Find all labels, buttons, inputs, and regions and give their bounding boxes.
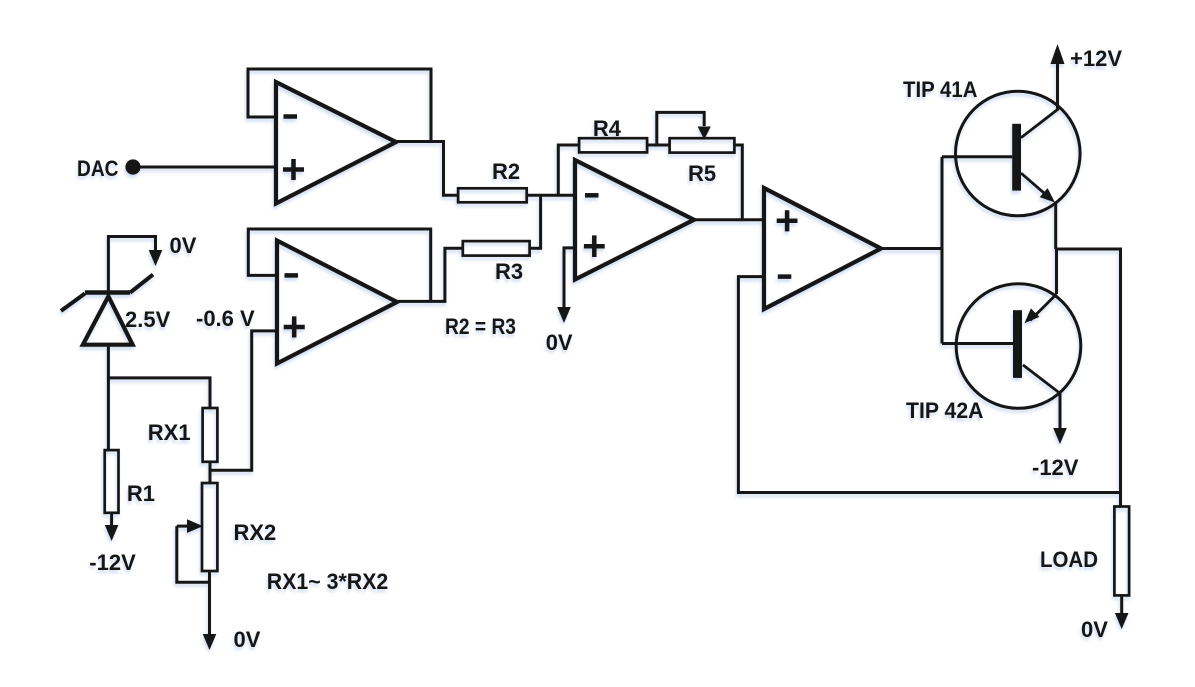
zener bar left tail — [61, 294, 85, 311]
wire U3 output to U4 + input — [692, 218, 764, 221]
wire Q1 emitter to output node — [1054, 202, 1057, 249]
arrow -12V (Q2) — [1053, 428, 1067, 444]
wire output node to load branch — [1056, 249, 1121, 493]
svg-text:R4: R4 — [593, 116, 622, 141]
arrow 0V (U3) — [557, 307, 571, 323]
resistor R3 — [463, 241, 530, 284]
transistor Q2 TIP 42A — [942, 284, 1081, 409]
wire junction R2/R3 node — [530, 195, 541, 248]
svg-text:0V: 0V — [546, 330, 573, 355]
zener diode D1 triangle — [83, 296, 133, 344]
wire U1 output to R2 — [394, 142, 459, 196]
svg-text:-12V: -12V — [89, 550, 136, 575]
zener bar right tail — [130, 275, 153, 293]
wire RX2 wiper to bottom — [177, 526, 210, 582]
svg-text:0V: 0V — [234, 627, 261, 652]
arrow 0V (LOAD) — [1115, 613, 1129, 629]
resistor LOAD — [1040, 507, 1129, 596]
resistor R2 — [458, 159, 527, 202]
svg-text:TIP 41A: TIP 41A — [903, 77, 978, 102]
svg-text:LOAD: LOAD — [1040, 547, 1098, 572]
arrow +12V — [1051, 44, 1065, 64]
wire U4 output to bases — [879, 247, 942, 250]
svg-text:TIP 42A: TIP 42A — [906, 398, 984, 423]
potentiometer RX2 — [202, 483, 276, 571]
svg-text:RX2: RX2 — [234, 520, 277, 545]
wire node to RX1 — [108, 378, 210, 408]
op-amp U3 — [575, 160, 694, 280]
svg-text:RX1: RX1 — [148, 420, 191, 445]
wire to LOAD — [1119, 493, 1122, 507]
zener 0V arrow — [149, 250, 163, 266]
resistor RX1 — [148, 408, 218, 462]
wire U2 + input from RX1/RX2 node — [210, 331, 278, 470]
resistor R1 — [105, 450, 155, 513]
arrow 0V (RX2) — [203, 634, 217, 650]
arrow -12V (R1) — [105, 525, 119, 541]
op-amp U1 — [276, 82, 396, 204]
svg-text:-0.6 V: -0.6 V — [196, 306, 255, 331]
wire U2 feedback loop — [248, 229, 430, 301]
svg-text:R1: R1 — [127, 481, 155, 506]
svg-text:R5: R5 — [688, 161, 716, 186]
zener diode D1 top wire to 0V — [108, 237, 155, 293]
R5 wiper wire — [657, 112, 704, 145]
svg-text:0V: 0V — [170, 233, 197, 258]
svg-text:R2 = R3: R2 = R3 — [445, 314, 516, 339]
wire U3 + input to 0V — [564, 248, 575, 308]
node DAC dot — [125, 159, 140, 174]
wire U4 - input feedback from output node — [738, 277, 1120, 493]
wire R2 to U3 - input — [527, 194, 575, 197]
wire LOAD to 0V — [1120, 595, 1123, 614]
transistor Q1 TIP 41A — [942, 91, 1080, 216]
Q1 emitter arrow — [1040, 188, 1059, 207]
op-amp U4 — [764, 188, 881, 309]
RX2 wiper arrow — [177, 525, 188, 528]
wire RX1 to RX2 — [209, 462, 212, 483]
Q2 emitter arrow — [1020, 308, 1039, 327]
wire U1 feedback loop — [248, 69, 431, 141]
op-amp U2 — [277, 241, 397, 364]
wire Q2 collector to -12V — [1059, 393, 1062, 429]
wire zener anode down — [107, 345, 110, 450]
svg-text:-12V: -12V — [1032, 455, 1079, 480]
wire Q1 collector to +12V — [1056, 60, 1059, 109]
wire base feed vertical — [941, 157, 944, 344]
svg-text:RX1~ 3*RX2: RX1~ 3*RX2 — [267, 569, 389, 594]
wire RX2 bottom to 0V — [208, 571, 211, 635]
wire R5 to output node — [734, 145, 742, 220]
wire DAC to U1 + input — [140, 166, 276, 169]
svg-text:0V: 0V — [1081, 617, 1108, 642]
wire R4 to R5 — [647, 144, 670, 147]
wire U2 output to R3 — [395, 248, 463, 301]
svg-text:+12V: +12V — [1070, 46, 1122, 71]
wire R1 to -12V — [110, 513, 113, 526]
R5 wiper arrow — [698, 127, 711, 140]
svg-text:R3: R3 — [495, 259, 523, 284]
svg-text:2.5V: 2.5V — [125, 307, 171, 332]
svg-text:DAC: DAC — [77, 156, 119, 181]
potentiometer R5 — [670, 138, 735, 186]
wire U3 feedback to R4 — [558, 145, 579, 195]
zener diode D1 cathode bar — [85, 290, 130, 295]
svg-text:R2: R2 — [492, 159, 520, 184]
resistor R4 — [579, 116, 647, 152]
wire output node to Q2 emitter — [1055, 249, 1058, 294]
